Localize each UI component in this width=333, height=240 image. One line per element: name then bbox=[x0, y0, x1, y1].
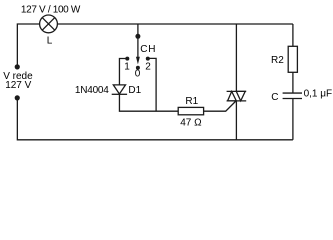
svg-text:D1: D1 bbox=[128, 85, 141, 96]
wire: CH pole stub from top rail bbox=[137, 24, 139, 58]
svg-text:1N4004: 1N4004 bbox=[75, 85, 109, 96]
wire: R1 to triac gate bbox=[204, 101, 236, 111]
wire: contact 2 elbow down to gate wire bbox=[148, 58, 156, 111]
triac bottom bar bbox=[227, 100, 247, 102]
svg-text:L: L bbox=[47, 36, 53, 47]
svg-text:R2: R2 bbox=[271, 55, 284, 66]
switch CH pole arrowhead bbox=[136, 57, 140, 65]
svg-text:0,1 μF: 0,1 μF bbox=[304, 89, 333, 100]
lamp L bbox=[40, 15, 58, 33]
node: switch position 2 bbox=[146, 57, 150, 61]
svg-text:R1: R1 bbox=[185, 96, 198, 107]
svg-text:2: 2 bbox=[145, 61, 151, 72]
triac right triangle (apex down) bbox=[236, 91, 245, 101]
node: switch position 0 bbox=[136, 66, 140, 70]
wire: triac branch from top rail bbox=[235, 24, 237, 91]
capacitor C bottom plate bbox=[283, 98, 302, 100]
node: switch position 1 bbox=[125, 57, 129, 61]
svg-text:47 Ω: 47 Ω bbox=[180, 118, 202, 129]
wire: diode to gate wire and along to R1 bbox=[119, 94, 178, 111]
wire: triac to bottom rail bbox=[235, 101, 237, 140]
resistor R1 body bbox=[178, 107, 203, 114]
svg-text:1: 1 bbox=[124, 61, 130, 72]
wire: contact 1 elbow down to diode bbox=[119, 59, 127, 85]
wire: top rail from lamp to right corner bbox=[57, 23, 293, 25]
wire: capacitor to bottom rail bbox=[292, 99, 294, 140]
node: junction on CH pole bbox=[135, 34, 140, 39]
node: upper source terminal bbox=[15, 64, 20, 69]
diode D1 triangle bbox=[113, 85, 125, 94]
svg-text:127 V / 100 W: 127 V / 100 W bbox=[21, 5, 81, 16]
capacitor C top plate bbox=[283, 92, 302, 94]
svg-text:C: C bbox=[271, 92, 278, 103]
wire: top rail right corner down to R2 bbox=[292, 24, 294, 46]
node: lower source terminal bbox=[15, 95, 20, 100]
svg-text:CH: CH bbox=[140, 44, 156, 55]
svg-text:0: 0 bbox=[135, 69, 141, 80]
wire: lower terminal down and bottom rail bbox=[17, 98, 293, 140]
triac left triangle (apex up) bbox=[228, 91, 237, 101]
diode D1 cathode bar bbox=[112, 93, 127, 95]
triac top bar bbox=[227, 90, 247, 92]
wire: R2 to capacitor bbox=[292, 72, 294, 93]
resistor R2 body bbox=[288, 46, 297, 72]
wire: top rail left + left drop to upper terminal bbox=[17, 24, 39, 67]
svg-text:127 V: 127 V bbox=[5, 80, 31, 91]
